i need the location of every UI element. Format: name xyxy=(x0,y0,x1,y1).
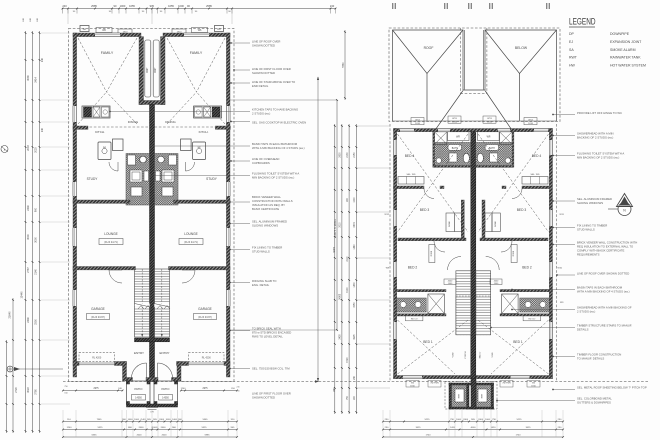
svg-text:MIN BACKING OF 2 STUDS (ea.): MIN BACKING OF 2 STUDS (ea.) xyxy=(577,156,619,160)
svg-text:VOID: VOID xyxy=(492,352,494,357)
left dimension extension lines to plan xyxy=(41,32,70,34)
svg-text:RWT: RWT xyxy=(147,67,149,73)
window head labels under roof xyxy=(411,118,424,125)
svg-text:W12: W12 xyxy=(385,214,390,216)
svg-text:2400: 2400 xyxy=(139,427,145,429)
svg-text:DINING: DINING xyxy=(128,120,139,124)
svg-text:SA: SA xyxy=(569,48,574,52)
right plan outer walls xyxy=(394,129,553,132)
svg-text:ENG. DETAIL: ENG. DETAIL xyxy=(252,283,270,287)
svg-text:1000: 1000 xyxy=(134,419,140,421)
bed4 door arc left xyxy=(424,189,434,199)
svg-text:14050: 14050 xyxy=(135,397,142,400)
svg-text:EJ: EJ xyxy=(569,40,573,44)
svg-text:RWS TO LEVEL DETAIL: RWS TO LEVEL DETAIL xyxy=(252,335,283,339)
svg-text:1010: 1010 xyxy=(528,123,534,125)
svg-text:HW: HW xyxy=(569,64,576,68)
svg-text:SHOWN DOTTED: SHOWN DOTTED xyxy=(252,71,275,75)
window label box 4000-1000 left xyxy=(444,279,456,285)
svg-text:SEL. GAS COOKTOP W ELECTRIC OV: SEL. GAS COOKTOP W ELECTRIC OVEN xyxy=(252,121,306,125)
svg-text:W13: W13 xyxy=(528,120,533,122)
svg-text:1740: 1740 xyxy=(516,434,522,436)
right plan top tick pairs xyxy=(392,3,394,9)
svg-text:1010: 1010 xyxy=(452,121,458,123)
patio left xyxy=(127,381,151,405)
bed1 ceiling dashed diagonals xyxy=(398,320,456,374)
svg-text:3414: 3414 xyxy=(34,77,37,83)
top wall window gaps xyxy=(95,33,120,37)
datum symbol bottom left xyxy=(7,366,13,372)
svg-text:W13: W13 xyxy=(415,120,420,122)
svg-text:RL 4200: RL 4200 xyxy=(202,357,212,360)
bed3 door arcs xyxy=(434,241,445,252)
left plan bottom dimension rows xyxy=(63,421,237,423)
left plan dashed roof-over boundary xyxy=(69,29,235,382)
svg-text:5365: 5365 xyxy=(203,419,209,421)
right plan annotation leaders xyxy=(553,114,575,116)
left wall window gaps xyxy=(73,106,77,122)
section marker left edge xyxy=(1,146,8,153)
svg-text:(140): (140) xyxy=(159,419,164,421)
svg-text:2585: 2585 xyxy=(206,4,212,8)
right plan party wall xyxy=(471,132,476,379)
ensuite left unit xyxy=(394,290,447,292)
kitchen bench dashed line xyxy=(77,126,150,128)
svg-text:1740: 1740 xyxy=(426,434,432,436)
svg-text:1010: 1010 xyxy=(415,123,421,125)
patio steps xyxy=(127,404,178,407)
left dimension column lines xyxy=(25,31,27,433)
svg-text:W13: W13 xyxy=(487,118,492,120)
svg-text:1655: 1655 xyxy=(168,4,174,8)
stairs right flight xyxy=(154,269,170,337)
hall wall left unit xyxy=(394,186,425,189)
svg-text:(FL R 43.97): (FL R 43.97) xyxy=(91,316,105,319)
svg-text:1000: 1000 xyxy=(120,4,126,8)
stair void dashed xyxy=(456,296,471,335)
svg-text:1420: 1420 xyxy=(491,427,497,429)
svg-text:4000: 4000 xyxy=(471,427,477,429)
svg-text:5325: 5325 xyxy=(202,427,208,429)
svg-text:SEL. METAL ROOF SHEETING BELOW: SEL. METAL ROOF SHEETING BELOW 7° PITCH … xyxy=(577,386,647,390)
garage door arc right xyxy=(182,270,195,283)
stairs left flight xyxy=(135,269,151,337)
svg-text:STUD WALLS: STUD WALLS xyxy=(577,228,595,232)
study door arc left xyxy=(109,162,118,171)
svg-text:WR: WR xyxy=(456,137,460,139)
family ceiling dashed lines left xyxy=(78,38,107,92)
svg-text:SEL. WD: SEL. WD xyxy=(407,174,416,176)
svg-text:2585: 2585 xyxy=(91,4,97,8)
svg-text:6365: 6365 xyxy=(92,434,98,436)
wall bed3 right xyxy=(480,238,548,241)
svg-text:3 R: 3 R xyxy=(150,412,154,414)
svg-text:2975: 2975 xyxy=(202,388,208,390)
svg-text:14360: 14360 xyxy=(334,246,336,253)
svg-text:2140: 2140 xyxy=(34,269,37,275)
svg-text:(140): (140) xyxy=(140,419,145,421)
bed4 door arc right xyxy=(512,189,522,199)
svg-text:ROOF: ROOF xyxy=(424,46,434,50)
svg-text:LOUNGE: LOUNGE xyxy=(184,232,197,236)
svg-text:PROVIDE LIFT OFF HINGE TO WC: PROVIDE LIFT OFF HINGE TO WC xyxy=(577,111,622,115)
svg-text:1400: 1400 xyxy=(128,419,134,421)
svg-text:WITH A MIN BACKING OF 4 STUDS: WITH A MIN BACKING OF 4 STUDS (ea.) xyxy=(252,146,305,150)
svg-text:W10: W10 xyxy=(558,268,563,270)
svg-text:KITCH.: KITCH. xyxy=(95,130,105,134)
robe right unit xyxy=(522,177,548,185)
svg-text:ENTRY: ENTRY xyxy=(159,351,169,355)
right plan stairs xyxy=(456,271,471,335)
bottom window labels right plan xyxy=(406,381,419,388)
svg-text:AC: AC xyxy=(83,27,87,31)
svg-text:BALCO: BALCO xyxy=(479,351,482,358)
svg-text:3022: 3022 xyxy=(27,387,30,393)
svg-text:LINE OF ROOF OVER SHOWN DOTTED: LINE OF ROOF OVER SHOWN DOTTED xyxy=(577,272,629,276)
svg-text:STUDY: STUDY xyxy=(206,177,218,181)
svg-text:2600: 2600 xyxy=(340,152,342,158)
left plan outer walls xyxy=(73,33,141,37)
svg-text:DINING: DINING xyxy=(165,120,176,124)
entry door arc right xyxy=(158,363,173,378)
svg-text:2720: 2720 xyxy=(15,387,18,393)
svg-text:BACKING OF 2 STUDS (ea.): BACKING OF 2 STUDS (ea.) xyxy=(577,136,613,140)
svg-text:3000: 3000 xyxy=(34,237,37,243)
svg-text:2550: 2550 xyxy=(34,319,37,325)
entry door arc left xyxy=(132,363,147,378)
svg-text:2150: 2150 xyxy=(354,152,356,158)
svg-text:BED 3: BED 3 xyxy=(517,208,527,212)
garage level box left xyxy=(87,314,110,320)
stair base wall xyxy=(135,338,170,342)
svg-text:SLIDING WINDOWS: SLIDING WINDOWS xyxy=(252,224,278,228)
svg-text:GUTTERS & DOWNPIPES: GUTTERS & DOWNPIPES xyxy=(577,401,611,405)
svg-text:RWT: RWT xyxy=(155,67,157,73)
kitchen bench right unit xyxy=(194,106,222,118)
svg-text:MIN BACKING OF 2 STUDS (ea.): MIN BACKING OF 2 STUDS (ea.) xyxy=(252,176,294,180)
svg-text:2110: 2110 xyxy=(347,256,349,262)
svg-text:240: 240 xyxy=(41,57,44,62)
svg-text:RAINWATER TANK: RAINWATER TANK xyxy=(610,56,641,60)
svg-text:240: 240 xyxy=(41,127,44,132)
svg-text:SHOWN DOTTED: SHOWN DOTTED xyxy=(252,44,275,48)
wall bed3 left xyxy=(398,238,466,241)
svg-text:PATIO: PATIO xyxy=(135,387,144,391)
svg-text:3050: 3050 xyxy=(354,302,356,308)
svg-text:ROBE: ROBE xyxy=(513,250,515,256)
svg-text:RWT: RWT xyxy=(459,393,461,398)
svg-text:ROBE: ROBE xyxy=(431,250,433,256)
wc room right xyxy=(193,142,206,160)
svg-text:BED 3: BED 3 xyxy=(420,208,430,212)
wall between study and lounge xyxy=(73,200,130,203)
svg-text:SMOKE ALARM: SMOKE ALARM xyxy=(610,48,636,52)
svg-text:900: 900 xyxy=(34,207,37,212)
svg-text:1000: 1000 xyxy=(354,197,356,203)
svg-text:1420: 1420 xyxy=(450,427,456,429)
svg-text:(FL R 44.71): (FL R 44.71) xyxy=(104,241,118,244)
svg-text:(3000): (3000) xyxy=(151,427,158,429)
svg-text:PATIO: PATIO xyxy=(162,387,171,391)
svg-text:1000: 1000 xyxy=(166,419,172,421)
svg-text:CUPBOARDS: CUPBOARDS xyxy=(252,161,270,165)
robe strip bed2 right xyxy=(511,245,517,263)
entry front wall and door arcs xyxy=(127,378,133,382)
left plan AC unit boxes above top wall xyxy=(80,26,89,32)
first floor over dashed line across sheet xyxy=(63,381,123,383)
svg-text:HOT WATER SYSTEM: HOT WATER SYSTEM xyxy=(610,64,646,68)
kitchen bench left unit xyxy=(82,106,110,118)
svg-text:2440: 2440 xyxy=(27,317,30,323)
bed2 door arc right xyxy=(486,257,500,271)
svg-text:DETAILS: DETAILS xyxy=(577,328,589,332)
svg-text:14365: 14365 xyxy=(340,293,342,300)
hall wall right unit xyxy=(522,186,549,189)
right plan left dim extension lines xyxy=(357,125,390,127)
svg-text:6100: 6100 xyxy=(347,287,349,293)
svg-text:1655: 1655 xyxy=(129,4,135,8)
svg-text:DOWNPIPE: DOWNPIPE xyxy=(610,32,630,36)
svg-text:3438: 3438 xyxy=(340,334,342,340)
svg-text:STUD WALLS: STUD WALLS xyxy=(252,250,270,254)
porch tanks below right plan xyxy=(445,382,497,410)
svg-text:2787: 2787 xyxy=(27,267,30,273)
svg-text:2600: 2600 xyxy=(137,434,143,436)
svg-text:RWT: RWT xyxy=(482,393,484,398)
RWT tank right xyxy=(153,40,159,97)
central bathroom block right unit xyxy=(155,154,179,206)
roof channel inner edges xyxy=(464,30,466,90)
svg-text:TO MANUF. DETAILS: TO MANUF. DETAILS xyxy=(577,357,604,361)
svg-text:14050: 14050 xyxy=(162,397,169,400)
right plan bottom extension stubs xyxy=(382,410,384,437)
central bathroom block left unit xyxy=(126,154,150,206)
ensuite right unit xyxy=(500,290,553,292)
stair mid landing break xyxy=(135,304,150,307)
svg-text:SLIDING WINDOWS: SLIDING WINDOWS xyxy=(577,201,603,205)
svg-text:2 STUDS (ea.): 2 STUDS (ea.) xyxy=(577,310,595,314)
left plan top dimension chain xyxy=(62,8,336,10)
svg-text:3474: 3474 xyxy=(354,222,356,228)
svg-text:(FL R 44.71): (FL R 44.71) xyxy=(184,241,198,244)
roof channel dashed xyxy=(459,28,461,94)
svg-text:2975: 2975 xyxy=(93,388,99,390)
left roof outline xyxy=(393,30,464,121)
svg-text:2 STUDS (ea.): 2 STUDS (ea.) xyxy=(252,112,270,116)
svg-text:W13: W13 xyxy=(452,118,457,120)
svg-text:6720: 6720 xyxy=(347,357,349,363)
window head boxes above top wall xyxy=(96,28,112,33)
lounge level box right xyxy=(179,239,203,245)
garage door arc left xyxy=(109,270,122,283)
wall stub under kitchen xyxy=(73,126,88,129)
bathroom block left unit xyxy=(434,143,471,168)
svg-text:1440: 1440 xyxy=(354,244,356,250)
garage front wall xyxy=(73,362,79,366)
svg-text:FAMILY: FAMILY xyxy=(190,51,203,55)
svg-text:5560: 5560 xyxy=(343,62,345,68)
right plan left upper dim column xyxy=(344,30,346,100)
garage roller door dashed right xyxy=(189,353,225,362)
svg-text:5325: 5325 xyxy=(98,427,104,429)
svg-text:STUDY: STUDY xyxy=(87,177,99,181)
north compass xyxy=(618,203,631,216)
svg-text:1000: 1000 xyxy=(456,419,462,421)
robe strip bed2 left xyxy=(429,245,435,263)
svg-text:REQUIREMENTS: REQUIREMENTS xyxy=(577,252,600,256)
study door arc right xyxy=(186,162,195,171)
svg-text:BELOW: BELOW xyxy=(515,46,528,50)
svg-text:ROBE: ROBE xyxy=(449,221,451,227)
svg-text:WR: WR xyxy=(487,137,491,139)
svg-text:BATH: BATH xyxy=(489,147,495,150)
wall between lounge and garage xyxy=(73,267,136,270)
central void walls and party wall xyxy=(139,37,144,105)
south wall dimension line xyxy=(336,100,338,330)
svg-text:3425: 3425 xyxy=(526,427,532,429)
svg-text:RD CO: RD CO xyxy=(411,319,418,321)
svg-text:4905: 4905 xyxy=(354,334,356,340)
svg-text:782 FWS: 782 FWS xyxy=(430,383,439,385)
svg-text:BASIX CERTIFICATE: BASIX CERTIFICATE xyxy=(252,207,279,211)
svg-text:LOUNGE: LOUNGE xyxy=(104,232,117,236)
left dimension ticks xyxy=(25,32,27,34)
svg-text:LEGEND: LEGEND xyxy=(569,17,596,28)
svg-text:VOID: VOID xyxy=(453,352,455,357)
svg-text:ENTRY: ENTRY xyxy=(134,351,144,355)
svg-text:782 FWS: 782 FWS xyxy=(502,383,511,385)
bathroom block right unit xyxy=(476,143,513,168)
right plan bottom dimension rows xyxy=(383,421,563,423)
svg-text:RL 4200: RL 4200 xyxy=(92,357,102,360)
pantry left xyxy=(113,139,124,151)
svg-text:PORCH: PORCH xyxy=(465,351,467,358)
garage roller door dashed left xyxy=(79,353,115,362)
svg-text:BED 4: BED 4 xyxy=(532,154,542,158)
svg-text:GARAGE: GARAGE xyxy=(91,307,105,311)
legend underline xyxy=(569,26,595,28)
roof gutter line xyxy=(393,120,557,122)
svg-text:GARAGE: GARAGE xyxy=(198,307,212,311)
svg-text:(FL R 43.97): (FL R 43.97) xyxy=(198,316,212,319)
svg-text:3010: 3010 xyxy=(340,222,342,228)
right plan left dimension columns xyxy=(334,124,336,414)
svg-text:WITH A MIN BACKING OF 4 STUDS: WITH A MIN BACKING OF 4 STUDS (ea.) xyxy=(577,290,630,294)
porch roof xyxy=(436,90,512,130)
patio right xyxy=(154,381,178,405)
svg-text:2130: 2130 xyxy=(347,152,349,158)
annotation leaders left plan xyxy=(231,42,250,44)
wc room left xyxy=(98,142,111,160)
svg-text:3425: 3425 xyxy=(416,427,422,429)
family ceiling dashed lines right xyxy=(167,38,197,92)
svg-text:BED 2: BED 2 xyxy=(408,266,418,270)
svg-text:2025: 2025 xyxy=(34,147,37,153)
robe left unit xyxy=(398,177,424,185)
svg-text:3000: 3000 xyxy=(27,234,30,240)
svg-text:DP: DP xyxy=(569,32,575,36)
svg-text:5225: 5225 xyxy=(517,419,523,421)
svg-text:EXPANSION JOINT: EXPANSION JOINT xyxy=(610,40,642,44)
pantry right xyxy=(181,139,192,151)
svg-text:1240: 1240 xyxy=(181,388,187,390)
lounge level box left xyxy=(99,239,123,245)
svg-text:21640: 21640 xyxy=(9,311,12,319)
svg-text:1400: 1400 xyxy=(172,419,178,421)
svg-text:2600: 2600 xyxy=(162,434,168,436)
svg-text:1240: 1240 xyxy=(67,427,73,429)
left plan bottom extension stubs xyxy=(62,410,64,437)
svg-text:1000: 1000 xyxy=(178,4,184,8)
robe closets at party wall right xyxy=(492,213,500,232)
svg-text:BED 1: BED 1 xyxy=(513,340,523,344)
entry side walls xyxy=(123,362,127,382)
svg-text:SHOWN DOTTED: SHOWN DOTTED xyxy=(252,396,275,400)
svg-text:KITCH.: KITCH. xyxy=(199,130,209,134)
window label box right xyxy=(490,279,502,285)
svg-text:2440: 2440 xyxy=(27,205,30,211)
right plan wall window gaps xyxy=(400,129,414,132)
svg-text:RD CO: RD CO xyxy=(529,319,536,321)
svg-text:240: 240 xyxy=(62,4,67,8)
svg-text:RWT: RWT xyxy=(569,56,578,60)
svg-text:SEL. 75G/150 BSW COL. TIM: SEL. 75G/150 BSW COL. TIM xyxy=(252,367,290,371)
svg-text:2400: 2400 xyxy=(161,427,167,429)
svg-text:5225: 5225 xyxy=(425,419,431,421)
RWT tank left xyxy=(145,40,151,97)
svg-text:(140): (140) xyxy=(463,419,468,421)
svg-text:BED 2: BED 2 xyxy=(522,266,532,270)
svg-text:1430: 1430 xyxy=(354,282,356,288)
svg-text:1010: 1010 xyxy=(487,121,493,123)
svg-text:13440: 13440 xyxy=(21,291,24,299)
svg-text:AC: AC xyxy=(217,27,221,31)
svg-text:ROBE: ROBE xyxy=(495,221,497,227)
svg-text:240: 240 xyxy=(330,4,335,8)
stair extent vertical line xyxy=(317,77,319,382)
svg-text:(140): (140) xyxy=(478,419,483,421)
svg-text:7365: 7365 xyxy=(97,419,103,421)
unit ceiling dashed diagonals upper xyxy=(398,134,469,232)
svg-text:BED 1: BED 1 xyxy=(423,340,433,344)
svg-text:END DETAIL: END DETAIL xyxy=(252,84,269,88)
svg-text:3090: 3090 xyxy=(27,75,30,81)
svg-text:SEL. WD: SEL. WD xyxy=(531,174,540,176)
garage level box right xyxy=(194,314,217,320)
right plan dashed roof-over side lines xyxy=(389,124,391,381)
svg-text:5985: 5985 xyxy=(205,434,211,436)
svg-text:BED 4: BED 4 xyxy=(405,154,415,158)
svg-text:1000: 1000 xyxy=(485,419,491,421)
right plan roof eaves dashed boundary xyxy=(389,28,560,122)
setback dimension line below garage xyxy=(63,390,123,392)
robe closets at party wall left xyxy=(446,213,454,232)
right roof outline xyxy=(485,30,557,121)
svg-text:3780: 3780 xyxy=(34,389,37,395)
svg-text:905: 905 xyxy=(150,4,155,8)
svg-text:2003: 2003 xyxy=(27,145,30,151)
svg-text:FAMILY: FAMILY xyxy=(101,51,114,55)
bed2 door arc left xyxy=(448,257,462,271)
